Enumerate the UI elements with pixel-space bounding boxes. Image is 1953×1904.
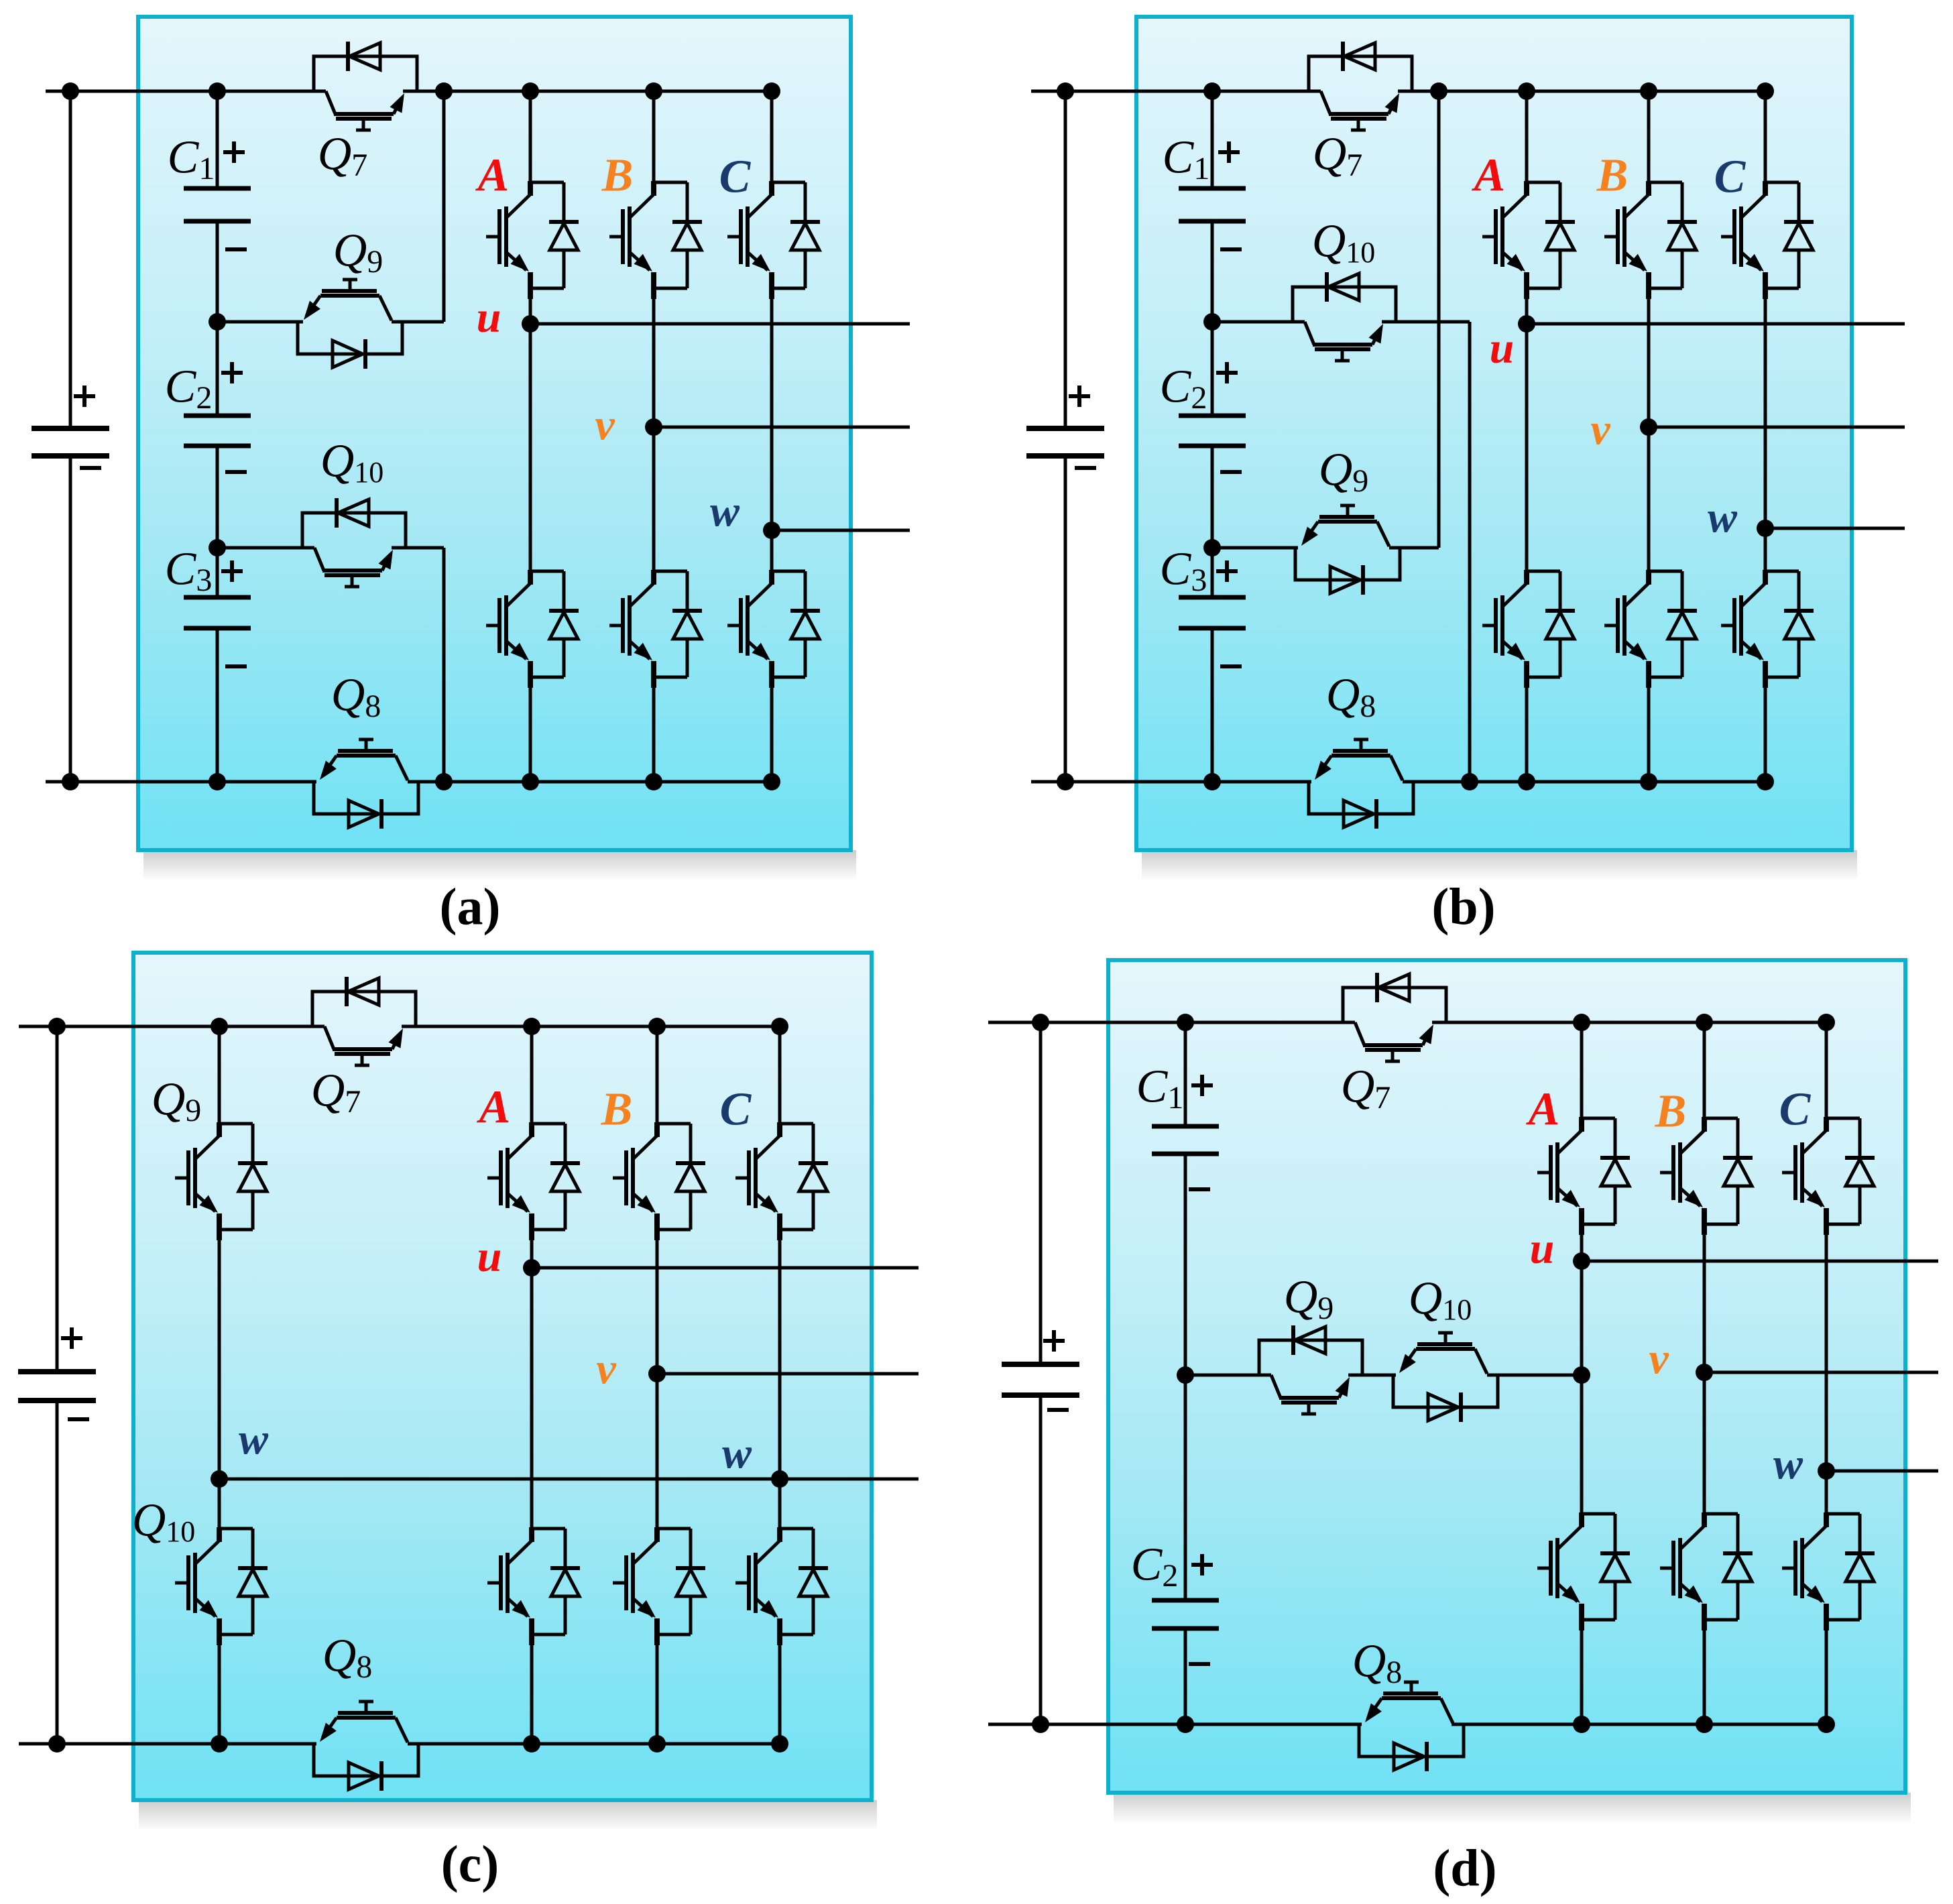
- svg-text:v: v: [595, 401, 615, 450]
- svg-text:A: A: [475, 150, 510, 202]
- svg-text:C: C: [719, 152, 752, 203]
- node w (d): [1818, 1462, 1835, 1480]
- label: C2 minus (d): [1189, 1662, 1210, 1666]
- svg-text:B: B: [1596, 150, 1629, 202]
- wire: (a) leg B column: [652, 91, 656, 182]
- svg-text:u: u: [1530, 1224, 1555, 1273]
- node v (c): [648, 1365, 666, 1382]
- wire: (a) output line v: [654, 426, 910, 429]
- panel (b) background box: [1142, 850, 1857, 881]
- transistor: (d) leg C upper IGBT: [1826, 1117, 1860, 1120]
- transistor Q8 (b) IGBT with series diode loop: [1309, 782, 1413, 814]
- junction dots (a) bottom rail: [62, 773, 79, 790]
- wire: (a) bottom DC- rail: [46, 780, 316, 784]
- wire: (c) left switch column: [218, 1026, 221, 1124]
- transistor Q7 (a) IGBT with antiparallel diode: [314, 56, 417, 91]
- svg-text:v: v: [1649, 1335, 1669, 1384]
- wire: (a) leg C column: [770, 91, 774, 182]
- wire: (b) bottom DC- rail: [1031, 780, 1311, 784]
- capacitor: (a) DC source capacitor: [32, 426, 109, 431]
- wire: (b) output line v: [1649, 426, 1905, 429]
- label: C1 minus (b): [1220, 247, 1242, 251]
- node w right (c): [771, 1470, 788, 1488]
- wire: (c) leg B column: [656, 1026, 659, 1124]
- transistor Q10 (a) IGBT with antiparallel diode: [217, 546, 314, 550]
- panel (c) background box: [139, 1800, 877, 1831]
- label: C1 plus (a): [223, 150, 245, 154]
- transistor: (c) leg B lower IGBT: [657, 1527, 691, 1531]
- svg-text:B: B: [1655, 1086, 1687, 1138]
- label: C3 minus (b): [1220, 664, 1242, 668]
- svg-text:u: u: [477, 1232, 502, 1281]
- junction dots (d) bottom rail: [1032, 1716, 1049, 1733]
- svg-text:u: u: [1490, 324, 1515, 373]
- wire: (c) output line v: [657, 1372, 919, 1376]
- wire: (d) top DC+ rail: [988, 1021, 1355, 1024]
- svg-text:(c): (c): [441, 1835, 499, 1893]
- wire: (b) Q9 riser to top rail: [1437, 91, 1441, 548]
- svg-text:v: v: [1590, 406, 1610, 455]
- transistor: (b) leg C lower IGBT: [1765, 570, 1799, 573]
- node u (d): [1573, 1252, 1590, 1270]
- transistor: (c) leg C lower IGBT: [780, 1527, 813, 1531]
- transistor: (b) leg A upper IGBT: [1527, 181, 1560, 184]
- wire: (b) output line w: [1765, 527, 1905, 530]
- svg-text:w: w: [239, 1415, 269, 1464]
- wire: (b) outer DC-source column: [1064, 91, 1067, 428]
- transistor: (d) leg B upper IGBT: [1704, 1117, 1738, 1120]
- transistor Q10 (c) vertical IGBT: [219, 1527, 253, 1531]
- transistor: (d) leg C lower IGBT: [1826, 1512, 1860, 1516]
- transistor Q8 (c) IGBT with series diode loop: [314, 1744, 418, 1776]
- svg-text:w: w: [710, 487, 740, 536]
- transistor: (b) leg B upper IGBT: [1649, 181, 1682, 184]
- svg-text:(d): (d): [1433, 1839, 1496, 1897]
- label: (c) DC source minus: [68, 1417, 89, 1421]
- transistor: (d) leg A upper IGBT: [1582, 1117, 1615, 1120]
- node v (b): [1640, 418, 1657, 436]
- junction dots (a) top rail: [62, 82, 79, 100]
- transistor: (a) leg B lower IGBT: [654, 570, 687, 573]
- label: C3 plus (b): [1216, 569, 1238, 573]
- junction dots (d) top rail: [1032, 1014, 1049, 1031]
- wire: (d) outer DC-source column: [1039, 1022, 1043, 1364]
- svg-text:w: w: [722, 1429, 752, 1478]
- transistor Q8 (d) IGBT with series diode loop: [1359, 1724, 1464, 1757]
- wire: (d) leg B column: [1703, 1022, 1706, 1118]
- wire: (d) leg A column: [1580, 1022, 1584, 1118]
- label: (b) DC source plus: [1069, 394, 1090, 398]
- capacitor: (c) DC source capacitor: [18, 1369, 96, 1374]
- capacitor C2 (a): [184, 414, 251, 418]
- transistor Q7 (d) IGBT with antiparallel diode: [1343, 988, 1446, 1022]
- transistor: (b) leg B lower IGBT: [1649, 570, 1682, 573]
- capacitor C2 (b): [1179, 414, 1246, 418]
- transistor: (c) leg C upper IGBT: [780, 1122, 813, 1126]
- capacitor C2 (d): [1152, 1598, 1219, 1603]
- wire: (a) capacitor chain column: [216, 91, 219, 188]
- svg-text:w: w: [1708, 493, 1738, 542]
- capacitor C1 (a): [184, 186, 251, 191]
- capacitor: (d) DC source capacitor: [1002, 1362, 1079, 1367]
- label: C3 plus (a): [221, 569, 243, 573]
- capacitor C1 (d): [1152, 1124, 1219, 1129]
- wire: (c) leg C column: [778, 1026, 782, 1124]
- label: (d) DC source minus: [1047, 1408, 1069, 1412]
- junction dots (b) top rail: [1057, 82, 1074, 100]
- label: C2 plus (a): [221, 371, 243, 375]
- node v (d): [1696, 1364, 1713, 1381]
- label: C3 minus (a): [225, 664, 247, 668]
- wire: (b) top DC+ rail: [1031, 90, 1321, 93]
- transistor Q7 (b) IGBT with antiparallel diode: [1309, 56, 1412, 91]
- wire: (c) outer DC-source column: [56, 1026, 59, 1372]
- capacitor: (b) DC source capacitor: [1026, 426, 1104, 431]
- wire: (d) output line w: [1826, 1470, 1938, 1473]
- transistor: (a) leg A lower IGBT: [530, 570, 564, 573]
- svg-text:C: C: [720, 1084, 752, 1136]
- svg-text:A: A: [1526, 1084, 1560, 1136]
- panel (d) background box: [1114, 1793, 1911, 1824]
- transistor Q10 (d) IGBT with series diode loop: [1393, 1375, 1498, 1407]
- capacitor C1 (b): [1179, 186, 1246, 191]
- panel (a) background box: [143, 850, 856, 881]
- wire: (d) output line u: [1582, 1260, 1938, 1263]
- svg-text:w: w: [1773, 1440, 1803, 1489]
- wire: (a) outer DC-source column: [69, 91, 72, 428]
- transistor: (d) leg B lower IGBT: [1704, 1512, 1738, 1516]
- transistor: (d) leg A lower IGBT: [1582, 1512, 1615, 1516]
- label: C2 minus (a): [225, 470, 247, 474]
- svg-text:A: A: [1472, 150, 1506, 202]
- svg-text:u: u: [477, 293, 501, 342]
- wire: (b) output line u: [1527, 322, 1905, 326]
- wire: (a) output line w: [772, 529, 910, 532]
- wire: (c) bottom DC- rail: [19, 1742, 316, 1746]
- wire: (b) leg A column: [1525, 91, 1529, 182]
- node u (c): [523, 1259, 540, 1276]
- wire: (d) capacitor chain column: [1184, 1022, 1187, 1126]
- wire: (c) leg A column: [530, 1026, 534, 1124]
- wire: (d) output line v: [1704, 1371, 1938, 1374]
- transistor: (a) leg C upper IGBT: [772, 181, 805, 184]
- transistor Q8 (a) IGBT with series diode loop: [314, 782, 418, 814]
- transistor: (c) leg A lower IGBT: [532, 1527, 565, 1531]
- label: (b) DC source minus: [1075, 466, 1096, 470]
- wire: (a) Q10 drop to bottom rail: [442, 548, 446, 782]
- transistor: (a) leg B upper IGBT: [654, 181, 687, 184]
- transistor: (b) leg A lower IGBT: [1527, 570, 1560, 573]
- label: C2 plus (b): [1216, 371, 1238, 375]
- wire: (b) capacitor chain column: [1211, 91, 1214, 188]
- node w (a): [763, 522, 780, 539]
- transistor Q9 (a) IGBT with series diode loop: [217, 320, 303, 324]
- svg-text:B: B: [601, 150, 634, 202]
- transistor Q9 (b) IGBT with series diode loop: [1212, 546, 1298, 550]
- node w left (c): [211, 1470, 228, 1488]
- wire: (b) Q10 drop to bottom rail: [1468, 322, 1472, 782]
- transistor: (c) leg A upper IGBT: [532, 1122, 565, 1126]
- junction dot (d) capacitor chain midpoint: [1177, 1366, 1194, 1384]
- svg-text:C: C: [1714, 152, 1747, 203]
- wire: (a) output line u: [530, 322, 910, 326]
- transistor Q7 (c) IGBT with antiparallel diode: [312, 992, 416, 1026]
- junction dots (b) bottom rail: [1057, 773, 1074, 790]
- svg-text:v: v: [596, 1345, 616, 1394]
- wire: (c) output line w: [219, 1478, 919, 1481]
- junction dots (c) bottom rail: [48, 1735, 66, 1752]
- label: (a) DC source plus: [74, 394, 95, 398]
- label: (a) DC source minus: [80, 466, 101, 470]
- junction dots (c) top rail: [48, 1018, 66, 1035]
- svg-text:C: C: [1779, 1084, 1812, 1136]
- svg-text:(b): (b): [1431, 878, 1495, 936]
- label: (d) DC source plus: [1043, 1339, 1065, 1343]
- label: C1 plus (b): [1218, 150, 1240, 154]
- node w (b): [1757, 520, 1774, 537]
- svg-text:B: B: [601, 1084, 633, 1136]
- transistor Q10 (b) IGBT with antiparallel diode: [1212, 320, 1305, 324]
- node: (d) midpoint junction on leg A: [1573, 1366, 1590, 1384]
- node u (a): [522, 315, 539, 333]
- node v (a): [645, 418, 662, 436]
- label: C1 minus (d): [1189, 1187, 1210, 1191]
- junction dots (b) capacitor chain: [1203, 313, 1221, 331]
- transistor Q9 (c) vertical IGBT: [219, 1122, 253, 1126]
- node u (b): [1518, 315, 1535, 333]
- wire: (b) leg C column: [1764, 91, 1767, 182]
- svg-text:A: A: [477, 1082, 511, 1134]
- wire: (a) Q9 riser to top rail: [442, 91, 446, 322]
- wire: (c) top DC+ rail: [19, 1025, 324, 1028]
- label: C1 plus (d): [1191, 1083, 1213, 1087]
- label: C1 minus (a): [225, 247, 247, 251]
- label: C2 plus (d): [1191, 1563, 1213, 1567]
- capacitor C3 (a): [184, 595, 251, 600]
- transistor: (b) leg C upper IGBT: [1765, 181, 1799, 184]
- label: C2 minus (b): [1220, 470, 1242, 474]
- wire: (d) bottom DC- rail: [988, 1723, 1362, 1726]
- transistor: (c) leg B upper IGBT: [657, 1122, 691, 1126]
- wire: (a) leg A column: [529, 91, 532, 182]
- transistor: (a) leg C lower IGBT: [772, 570, 805, 573]
- wire: (d) leg C column: [1825, 1022, 1828, 1118]
- label: (c) DC source plus: [61, 1336, 82, 1340]
- transistor: (a) leg A upper IGBT: [530, 181, 564, 184]
- junction dots (a) capacitor chain: [209, 313, 226, 331]
- wire: (a) top DC+ rail: [46, 90, 326, 93]
- capacitor C3 (b): [1179, 595, 1246, 600]
- svg-text:(a): (a): [440, 878, 501, 936]
- wire: (b) leg B column: [1647, 91, 1651, 182]
- transistor Q9 (d) IGBT with antiparallel diode: [1185, 1374, 1271, 1377]
- wire: (c) output line u: [532, 1266, 919, 1270]
